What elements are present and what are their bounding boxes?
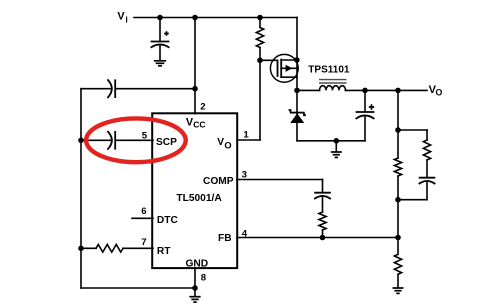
svg-text:DTC: DTC	[157, 215, 179, 226]
svg-text:O: O	[436, 88, 443, 98]
svg-text:4: 4	[242, 228, 248, 239]
svg-text:6: 6	[141, 206, 146, 217]
svg-text:SCP: SCP	[156, 137, 177, 148]
svg-text:7: 7	[141, 237, 146, 248]
svg-text:FB: FB	[218, 233, 232, 244]
svg-text:I: I	[126, 15, 128, 24]
svg-text:TL5001/A: TL5001/A	[176, 193, 222, 204]
svg-text:COMP: COMP	[203, 176, 234, 187]
svg-text:V: V	[117, 11, 125, 23]
svg-text:TPS1101: TPS1101	[308, 64, 350, 75]
svg-text:2: 2	[200, 102, 205, 113]
svg-text:8: 8	[201, 273, 207, 284]
svg-text:GND: GND	[186, 259, 209, 270]
svg-text:O: O	[224, 141, 231, 151]
svg-text:RT: RT	[157, 246, 171, 257]
svg-text:5: 5	[142, 131, 148, 142]
svg-text:3: 3	[242, 169, 247, 180]
svg-text:1: 1	[243, 129, 249, 140]
svg-text:CC: CC	[193, 120, 205, 130]
svg-text:V: V	[217, 137, 224, 148]
